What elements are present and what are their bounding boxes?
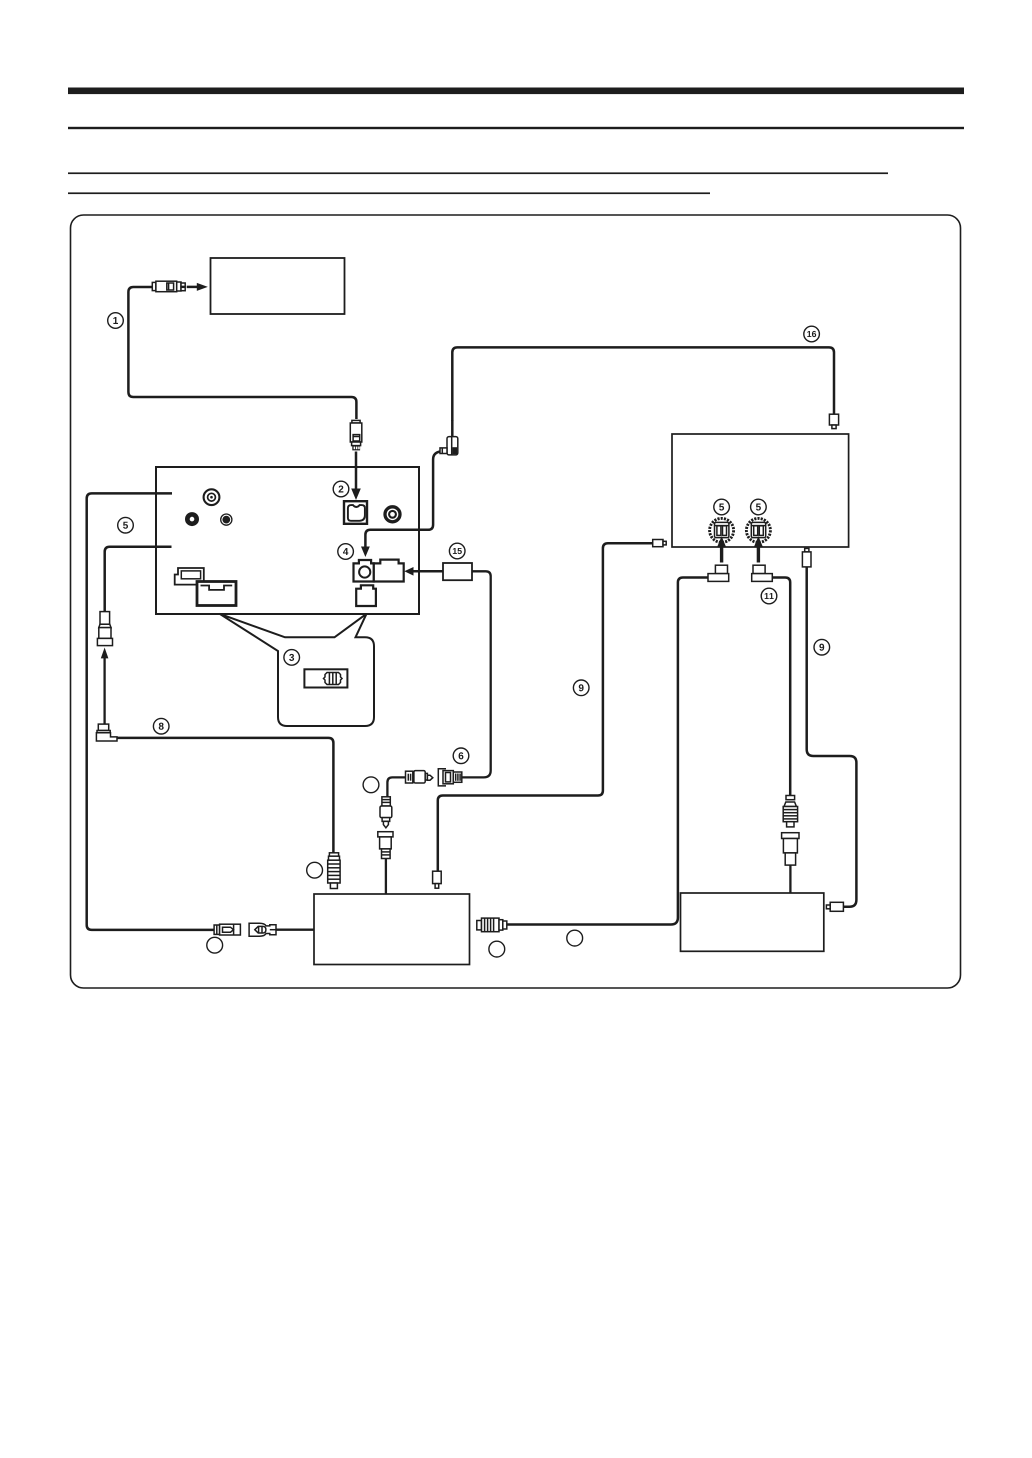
bullet connector male xyxy=(214,924,240,935)
label 5 left xyxy=(714,499,730,515)
box 15 xyxy=(443,563,472,580)
label 5 far left xyxy=(118,517,134,533)
top rule 3 xyxy=(68,172,888,174)
right-angle plug right (11) xyxy=(752,565,773,581)
label 5 right xyxy=(751,499,767,515)
label 6 xyxy=(453,748,469,764)
right box (monitor) xyxy=(672,434,849,547)
RCA jack mid xyxy=(221,514,232,525)
top rule 4 xyxy=(68,192,710,194)
label 4 xyxy=(338,544,354,560)
empty circle near RCA 8 xyxy=(307,862,323,878)
arrow up into DIN left xyxy=(717,536,726,562)
callout bubble box 3 xyxy=(220,614,374,726)
ISO connector upper icon xyxy=(175,568,204,585)
wire from connector 6 down to RCA pair xyxy=(387,777,405,797)
bottom-right box (tuner) xyxy=(681,893,824,951)
arrow up into DIN right xyxy=(754,536,763,562)
main unit box xyxy=(156,467,419,614)
plug of wire 9 right at right box xyxy=(802,548,811,567)
component 4 right part xyxy=(374,560,404,582)
right-angle plug left (11) xyxy=(708,565,729,581)
plug end of wire 16 xyxy=(829,414,838,428)
wire from right plug down to antenna pair xyxy=(772,578,790,796)
DIN socket left xyxy=(710,518,734,542)
wire 16 top run xyxy=(452,347,834,421)
label 9 left xyxy=(573,680,589,696)
RCA male plug pointing down xyxy=(380,797,392,828)
empty circle near bullet pair xyxy=(207,937,223,953)
arrow down into jack 2 xyxy=(351,452,361,501)
optical jack 2 xyxy=(344,501,367,524)
top rule 2 xyxy=(68,127,964,129)
antenna jack female pointing down xyxy=(97,612,112,646)
plug P2 (optical, pointing down) xyxy=(350,420,362,450)
arrow into box A xyxy=(187,283,208,291)
bottom-center box xyxy=(314,894,470,965)
connector 6 female socket xyxy=(438,769,462,786)
wire 1 xyxy=(128,287,356,419)
label 8 xyxy=(153,718,169,734)
label 9 right xyxy=(814,639,830,655)
empty circle near RCA pair xyxy=(363,777,379,793)
plug P1 (to display unit) xyxy=(152,281,185,292)
wire 16 vertical from connector to component 4 xyxy=(365,452,440,548)
RCA jack left xyxy=(185,512,199,526)
label 16 xyxy=(804,326,820,342)
arrow down into component 4 xyxy=(361,547,370,558)
DIN socket right xyxy=(746,518,770,542)
inline connector of wire 16 xyxy=(440,420,458,455)
wire into bottom-right box xyxy=(789,865,791,893)
cassette adapter icon xyxy=(304,669,347,687)
arrow up into antenna jack xyxy=(101,648,109,726)
wire 8 to RCA plug xyxy=(117,738,333,853)
label 3 xyxy=(284,650,300,666)
box A (display unit) xyxy=(211,258,345,314)
wire to antenna jack xyxy=(105,547,172,612)
antenna jack female (to bottom-right box) xyxy=(782,833,799,865)
label 15 xyxy=(449,543,465,559)
RCA jack top xyxy=(204,489,220,505)
right-angle antenna connector 8 xyxy=(96,724,117,741)
plug of wire 9 left above bottom-center box xyxy=(433,871,442,888)
empty circle below box left xyxy=(489,941,505,957)
component 4 camera part xyxy=(354,560,374,582)
ISO connector lower icon xyxy=(197,582,236,606)
label 1 xyxy=(108,313,124,329)
wire 9 left xyxy=(438,543,653,871)
wire into bottom-center box top xyxy=(385,859,387,895)
ribbed connector into bottom-center box xyxy=(477,918,507,932)
wire from female bullet to bottom-center box xyxy=(276,929,314,931)
plug of wire 9 right at bottom-right box xyxy=(826,902,843,911)
bullet connector female xyxy=(249,923,276,936)
top rule thick xyxy=(68,88,964,95)
label 2 xyxy=(333,481,349,497)
RCA plug 8 pointing down xyxy=(328,853,340,889)
RCA jack right xyxy=(385,507,400,522)
wire from box 15 to connector 6 xyxy=(462,571,491,777)
diagram frame xyxy=(71,215,961,988)
wire from left plug down to bottom-center box xyxy=(507,578,708,925)
label 11 xyxy=(761,588,777,604)
empty circle below box right xyxy=(567,930,583,946)
plug of wire 9 left at right box xyxy=(653,540,667,547)
RCA female socket below xyxy=(378,832,393,859)
component 4 lower connector xyxy=(356,585,376,606)
wire 5 left upper from main box xyxy=(87,493,214,930)
arrow from box 15 into component 4 xyxy=(404,567,443,576)
connector 6 male plug xyxy=(406,771,433,783)
wire 9 right xyxy=(807,567,857,907)
antenna plug male (on wire 11) xyxy=(783,796,797,827)
